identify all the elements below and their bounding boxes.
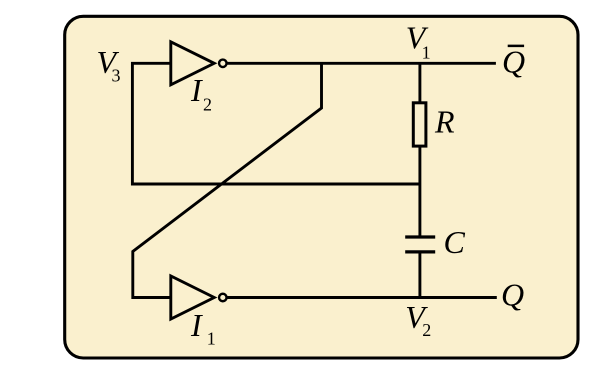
- wire V3 node: input of I2 down and across to R/C junction: [132, 63, 420, 184]
- inverter I1: [171, 276, 214, 319]
- svg-text:2: 2: [203, 94, 212, 114]
- capacitor C plates: [405, 237, 435, 252]
- wire top: V1 node to Qbar: [227, 62, 496, 65]
- svg-text:I: I: [190, 72, 203, 108]
- svg-text:1: 1: [207, 329, 216, 349]
- bubble of I2: [219, 60, 227, 68]
- svg-text:C: C: [444, 224, 466, 260]
- inverter I2: [171, 42, 214, 85]
- svg-text:R: R: [434, 104, 455, 140]
- wire bottom: V2 node to Q: [227, 296, 496, 299]
- Qbar overline: [508, 45, 524, 48]
- bubble of I1: [219, 294, 227, 302]
- rounded frame: [65, 16, 578, 358]
- svg-text:2: 2: [422, 320, 431, 340]
- svg-text:Q: Q: [501, 277, 524, 313]
- resistor R: [413, 103, 426, 146]
- wire resistor to capacitor: [418, 146, 421, 236]
- svg-text:1: 1: [422, 42, 431, 62]
- svg-text:Q: Q: [502, 44, 525, 80]
- wire cross-coupling: top wire down, diagonal, into I1 input: [133, 63, 322, 297]
- svg-text:3: 3: [112, 66, 121, 86]
- wire V1 to resistor: [418, 63, 421, 103]
- svg-text:I: I: [190, 307, 203, 343]
- wire capacitor to V2 node: [418, 253, 421, 297]
